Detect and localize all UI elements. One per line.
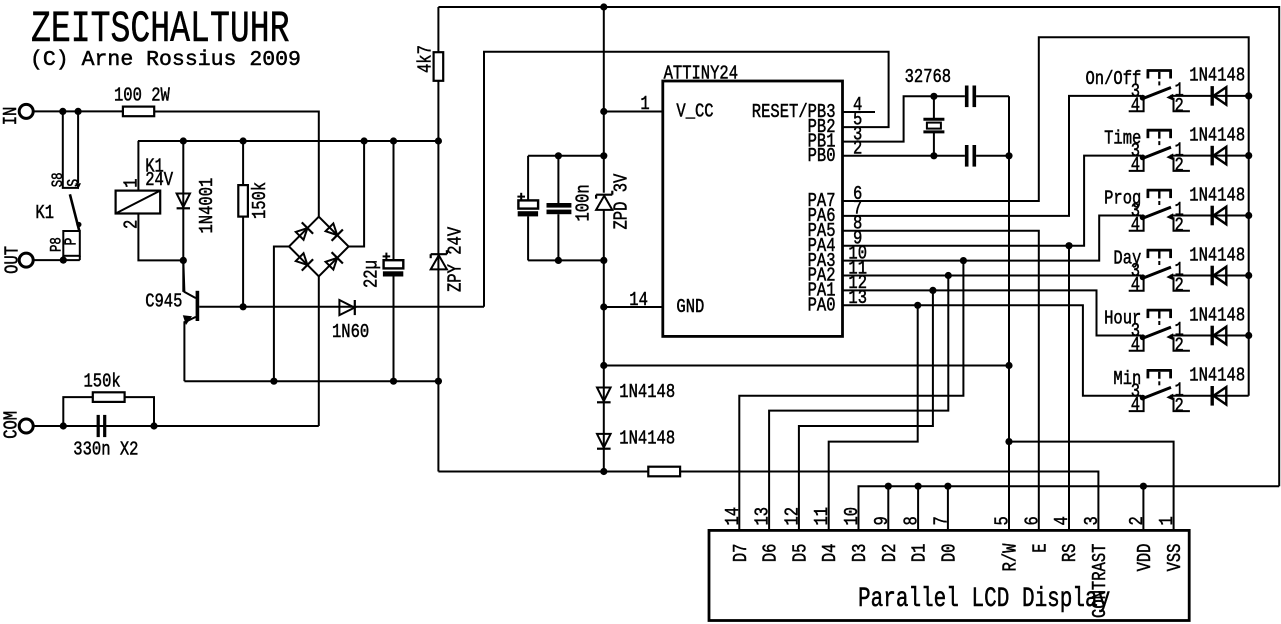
switch Min pin4 stub xyxy=(1129,398,1144,412)
terminal OUT xyxy=(19,253,33,267)
wire base xyxy=(199,306,484,308)
label button Time xyxy=(1104,128,1141,150)
label button Hour xyxy=(1104,308,1141,330)
svg-text:150k: 150k xyxy=(84,371,121,393)
svg-text:Time: Time xyxy=(1104,128,1141,150)
label LCD pin name D7 xyxy=(730,544,752,563)
zener ZPD 3V xyxy=(596,191,612,210)
label 100 2W xyxy=(114,85,170,107)
svg-text:13: 13 xyxy=(752,507,774,526)
cap 100n plate2 xyxy=(547,210,572,215)
wire 150k loop right xyxy=(125,397,154,426)
wire gnd diode line xyxy=(604,365,1009,367)
junction 100n bottom xyxy=(555,257,562,264)
svg-text:RS: RS xyxy=(1060,544,1082,563)
label Time pin1 xyxy=(1175,140,1184,162)
wire pin8 PA5 xyxy=(843,231,1039,531)
svg-text:D0: D0 xyxy=(939,544,961,563)
wire contrast rail right xyxy=(680,472,1098,531)
label pin 10 xyxy=(848,243,867,265)
svg-text:4: 4 xyxy=(1131,214,1140,236)
wire D1 stub xyxy=(917,486,919,530)
label Time pin2 xyxy=(1175,155,1184,177)
diode 1N4148 Hour xyxy=(1212,326,1226,346)
bridge diode top-left xyxy=(294,222,313,241)
bridge diode bottom-left xyxy=(294,252,313,271)
label 1N4148 b xyxy=(619,428,675,450)
svg-text:CONTRAST: CONTRAST xyxy=(1089,544,1111,618)
svg-text:4: 4 xyxy=(1131,155,1140,177)
wire pin9 PA4 xyxy=(843,156,1142,246)
wire Day pin1 to diode xyxy=(1170,275,1248,277)
label Hour pin2 xyxy=(1175,335,1184,357)
svg-text:10: 10 xyxy=(842,507,864,526)
svg-text:330n X2: 330n X2 xyxy=(73,439,138,461)
wire bridge right DC+ xyxy=(349,141,365,247)
svg-text:Parallel LCD Display: Parallel LCD Display xyxy=(858,585,1110,615)
svg-text:14: 14 xyxy=(629,289,648,311)
svg-text:14: 14 xyxy=(722,507,744,526)
switch Hour lever xyxy=(1143,327,1171,338)
label 4k7 xyxy=(415,45,437,73)
wire IN to resistor xyxy=(33,110,123,112)
label LCD pin name D3 xyxy=(850,544,872,563)
cap xtal top plate2 xyxy=(973,86,977,108)
switch On/Off pin4 stub xyxy=(1129,98,1144,112)
wire D5 link xyxy=(799,290,933,530)
terminal IN xyxy=(19,104,33,118)
label On/Off pin3 xyxy=(1131,81,1140,103)
label pin 5 xyxy=(853,109,862,131)
wire pin13 PA0 xyxy=(843,305,1142,396)
svg-text:2: 2 xyxy=(1175,335,1184,357)
svg-text:Hour: Hour xyxy=(1104,308,1141,330)
diode 1N4148 b xyxy=(597,434,611,449)
wire contrast rail left xyxy=(438,471,648,473)
junction contrast diode xyxy=(600,468,607,475)
wire vreg chain top xyxy=(603,7,605,193)
zener ZPY 24V xyxy=(431,250,447,269)
wire pin1 VCC stub xyxy=(604,111,663,113)
svg-text:2: 2 xyxy=(1175,95,1184,117)
svg-text:D7: D7 xyxy=(730,544,752,563)
svg-text:1N4148: 1N4148 xyxy=(1189,245,1245,267)
svg-text:OUT: OUT xyxy=(2,246,24,274)
wire RS vertical xyxy=(1068,246,1070,531)
switch Day contact arrow xyxy=(1166,273,1173,280)
svg-text:P: P xyxy=(63,238,81,246)
svg-text:K1: K1 xyxy=(35,203,54,225)
svg-text:32768: 32768 xyxy=(905,67,952,89)
label Min pin1 xyxy=(1175,380,1184,402)
label Hour pin3 xyxy=(1131,321,1140,343)
switch Prog pivot xyxy=(1140,214,1146,220)
cap 330n X2 plate2 xyxy=(103,415,106,437)
label Time pin4 xyxy=(1131,155,1140,177)
label LCD pin name E xyxy=(1030,544,1052,553)
wire On/Off pin1 to diode xyxy=(1170,95,1248,97)
label V_CC xyxy=(676,101,713,123)
wire crystal stub top xyxy=(933,96,935,119)
wire pin4 stub RESET/PB3 xyxy=(843,111,876,113)
label button Day xyxy=(1113,248,1141,270)
svg-text:2: 2 xyxy=(853,138,862,160)
svg-text:1N4148: 1N4148 xyxy=(619,428,675,450)
junction COM left xyxy=(60,422,67,429)
junction VDD xyxy=(1140,483,1147,490)
label LCD pin number 13 (D6) xyxy=(752,507,774,526)
junction OUT wire xyxy=(60,257,67,264)
label LCD pin name D4 xyxy=(820,544,842,563)
wire Hour pin1 to diode xyxy=(1170,335,1248,337)
svg-text:Min: Min xyxy=(1113,368,1141,390)
svg-text:D6: D6 xyxy=(760,544,782,563)
wire collector xyxy=(183,260,196,298)
junction pin10 D7 xyxy=(960,257,967,264)
label button Min xyxy=(1113,368,1141,390)
wire xtal cap bottom right xyxy=(976,155,1009,157)
label pin 8 xyxy=(853,213,862,235)
cap 10u bottom plate xyxy=(518,211,538,216)
wire 150k bottom xyxy=(242,217,244,307)
label Day pin1 xyxy=(1175,260,1184,282)
label LCD pin number 6 (E) xyxy=(1022,516,1044,525)
switch Hour actuator xyxy=(1147,310,1172,325)
switch Time actuator xyxy=(1147,130,1172,145)
diode 1N4148 Min xyxy=(1212,386,1226,406)
label On/Off pin2 xyxy=(1175,95,1184,117)
svg-text:1: 1 xyxy=(1157,516,1179,525)
label LCD pin number 11 (D4) xyxy=(812,507,834,526)
label 150k mid xyxy=(250,182,272,219)
cap xtal bot plate2 xyxy=(973,145,977,167)
label Hour pin4 xyxy=(1131,334,1140,356)
label Day pin3 xyxy=(1131,261,1140,283)
junction vreg caps top xyxy=(600,152,607,159)
junction RW vss line xyxy=(1005,438,1012,445)
wire 22u top xyxy=(393,141,395,260)
svg-text:4: 4 xyxy=(1131,274,1140,296)
S contact arrow xyxy=(75,183,81,189)
label LCD pin name VDD xyxy=(1134,544,1156,572)
switch Time pin2 stub xyxy=(1174,157,1190,171)
svg-text:1: 1 xyxy=(640,94,649,116)
label 22u xyxy=(361,260,383,288)
svg-text:D2: D2 xyxy=(879,544,901,563)
wire resistor to bridge corner xyxy=(154,112,319,217)
junction PB0 R/W node xyxy=(1005,152,1012,159)
switch Min actuator xyxy=(1147,370,1172,385)
label 32768 xyxy=(905,67,952,89)
label Min pin3 xyxy=(1131,381,1140,403)
label pin 14 GND xyxy=(629,289,648,311)
svg-text:(C) Arne Rossius 2009: (C) Arne Rossius 2009 xyxy=(30,48,301,72)
switch Day lever xyxy=(1143,267,1171,278)
junction rail 150k xyxy=(240,137,247,144)
resistor 150k loop xyxy=(93,392,125,402)
switch Hour pin2 stub xyxy=(1174,337,1190,351)
junction D0 xyxy=(944,483,951,490)
svg-text:1N4148: 1N4148 xyxy=(1189,125,1245,147)
label 1N4148 On/Off xyxy=(1189,65,1245,87)
svg-text:2: 2 xyxy=(1175,275,1184,297)
label PA4 xyxy=(808,235,836,257)
label button On/Off xyxy=(1086,68,1142,90)
switch Prog pin4 stub xyxy=(1129,217,1144,231)
label C945 xyxy=(145,291,182,313)
svg-text:ZPY 24V: ZPY 24V xyxy=(445,226,467,292)
label LCD pin number 2 (VDD) xyxy=(1126,516,1148,525)
svg-text:VSS: VSS xyxy=(1165,544,1187,572)
label 1N4148 Time xyxy=(1189,125,1245,147)
resistor 4k7 xyxy=(434,52,444,81)
wire Time pin1 to diode xyxy=(1170,155,1248,157)
svg-text:4: 4 xyxy=(1131,334,1140,356)
label Min pin4 xyxy=(1131,395,1140,417)
label PB0 xyxy=(808,146,836,168)
wire 10u bottom xyxy=(527,216,529,260)
svg-text:1N4148: 1N4148 xyxy=(1189,65,1245,87)
label Prog pin2 xyxy=(1175,215,1184,237)
emitter arrow xyxy=(183,315,192,325)
junction on IN wire A xyxy=(59,108,66,115)
svg-text:2: 2 xyxy=(1175,215,1184,237)
junction D1 xyxy=(915,483,922,490)
switch Day pin2 stub xyxy=(1174,277,1190,291)
wire 150k top xyxy=(242,141,244,185)
label K1 relay xyxy=(145,156,164,178)
label pin 7 xyxy=(853,198,862,220)
label 1N4148 Prog xyxy=(1189,185,1245,207)
svg-text:COM: COM xyxy=(1,411,23,439)
switch Time pin4 stub xyxy=(1129,157,1144,171)
svg-text:4: 4 xyxy=(1052,516,1074,525)
junction vreg GND xyxy=(600,303,607,310)
svg-text:4: 4 xyxy=(1131,395,1140,417)
switch Time lever xyxy=(1143,147,1171,158)
svg-text:4: 4 xyxy=(1131,95,1140,117)
wire VDD stub xyxy=(1142,486,1144,530)
junction pin12 D5 xyxy=(929,287,936,294)
label On/Off pin4 xyxy=(1131,95,1140,117)
label pin 6 xyxy=(853,183,862,205)
wire caps top line xyxy=(528,155,604,157)
wire COM xyxy=(33,425,319,427)
label LCD pin name VSS xyxy=(1165,544,1187,572)
wire OUT xyxy=(33,259,80,261)
svg-text:2: 2 xyxy=(1175,395,1184,417)
LCD box xyxy=(709,530,1189,620)
wire 150k loop xyxy=(63,397,93,426)
terminal COM xyxy=(19,419,33,433)
label PA3 xyxy=(808,250,836,272)
junction key common Hour xyxy=(1245,332,1252,339)
cap 330n X2 plate1 xyxy=(97,415,100,437)
switch Min pin2 stub xyxy=(1174,398,1190,412)
label PA0 xyxy=(808,295,836,317)
label PA2 xyxy=(808,265,836,287)
switch Prog contact arrow xyxy=(1166,213,1173,220)
label Min pin2 xyxy=(1175,395,1184,417)
switch Time pivot xyxy=(1140,155,1146,161)
svg-text:E: E xyxy=(1030,544,1052,553)
label PB2 xyxy=(808,116,836,138)
label relay pin 2 xyxy=(121,220,143,229)
wire pin11 PA2 xyxy=(843,275,1142,277)
label Day pin2 xyxy=(1175,275,1184,297)
label pin 3 xyxy=(853,124,862,146)
label LCD pin number 12 (D5) xyxy=(782,507,804,526)
label LCD pin name D0 xyxy=(939,544,961,563)
svg-text:IN: IN xyxy=(0,107,22,126)
diode 1N4001 xyxy=(177,194,190,209)
wire vreg chain mid xyxy=(603,210,605,472)
svg-text:150k: 150k xyxy=(250,182,272,219)
switch Min lever xyxy=(1143,387,1171,398)
svg-text:1N60: 1N60 xyxy=(332,322,369,344)
svg-text:D3: D3 xyxy=(850,544,872,563)
label LCD pin number 3 (CONTRAST) xyxy=(1081,516,1103,525)
label 1N4001 xyxy=(197,178,219,234)
label 100n xyxy=(573,184,595,221)
junction collector node xyxy=(180,257,187,264)
wire caps bottom line xyxy=(528,259,604,261)
label IN xyxy=(0,107,22,126)
label button Prog xyxy=(1104,188,1141,210)
svg-text:Day: Day xyxy=(1113,248,1141,270)
switch On/Off pin2 stub xyxy=(1174,98,1190,112)
switch On/Off lever xyxy=(1143,88,1171,99)
switch Prog lever xyxy=(1143,207,1171,218)
svg-text:5: 5 xyxy=(992,516,1014,525)
label 24V relay xyxy=(145,170,173,192)
label Hour pin1 xyxy=(1175,320,1184,342)
label PA6 xyxy=(808,206,836,228)
wire 1N60 corner up xyxy=(484,52,889,307)
junction RW gnd line xyxy=(1005,362,1012,369)
label LCD pin name RS xyxy=(1060,544,1082,563)
wire S contact right xyxy=(77,111,79,183)
label LCD pin number 10 (D3) xyxy=(842,507,864,526)
switch Min contact arrow xyxy=(1166,394,1173,401)
junction crystal top xyxy=(930,93,937,100)
label OUT xyxy=(2,246,24,274)
svg-text:C945: C945 xyxy=(145,291,182,313)
svg-text:PB0: PB0 xyxy=(808,146,836,168)
wire D4 link xyxy=(829,305,918,530)
label 1N4148 Min xyxy=(1189,365,1245,387)
junction rail 4k7-ZPY xyxy=(435,137,442,144)
switch Time contact arrow xyxy=(1166,153,1173,160)
svg-text:1: 1 xyxy=(121,178,143,187)
junction pin11 D6 xyxy=(945,272,952,279)
svg-text:R/W: R/W xyxy=(1000,543,1022,571)
label P pin xyxy=(63,238,81,246)
junction COM right xyxy=(150,422,157,429)
switch On/Off pivot xyxy=(1140,95,1146,101)
junction rail 22u-bottom xyxy=(390,378,397,385)
label LCD pin number 14 (D7) xyxy=(722,507,744,526)
wire 4k7 bottom xyxy=(437,81,439,141)
IC ATTINY24 box xyxy=(663,81,843,336)
svg-text:3: 3 xyxy=(1081,516,1103,525)
svg-text:ATTINY24: ATTINY24 xyxy=(664,63,738,85)
wire pin6 PA7 xyxy=(843,37,1249,396)
junction vreg diode line xyxy=(600,362,607,369)
wire +24 rail xyxy=(138,140,439,142)
title label ZEITSCHALTUHR xyxy=(31,4,289,55)
label PA7 xyxy=(808,191,836,213)
label pin 13 xyxy=(848,288,867,310)
wire S contact left xyxy=(63,111,79,187)
svg-text:D1: D1 xyxy=(909,544,931,563)
svg-text:9: 9 xyxy=(871,516,893,525)
wire 4k7 top xyxy=(437,7,439,52)
label pin 9 xyxy=(853,228,862,250)
junction key common Time xyxy=(1245,152,1252,159)
label 1N4148 Day xyxy=(1189,245,1245,267)
label S pin xyxy=(66,179,84,187)
label 1N4148 Hour xyxy=(1189,305,1245,327)
wire 22u bottom xyxy=(393,277,395,382)
label LCD pin name CONTRAST xyxy=(1089,544,1111,618)
label LCD pin name D1 xyxy=(909,544,931,563)
switch lever pivot dot xyxy=(76,222,81,227)
svg-text:100 2W: 100 2W xyxy=(114,85,170,107)
diode 1N4148 Day xyxy=(1212,266,1226,286)
svg-text:2: 2 xyxy=(1175,155,1184,177)
wire GND pin14 xyxy=(604,306,663,308)
svg-text:D4: D4 xyxy=(820,544,842,563)
svg-text:13: 13 xyxy=(848,288,867,310)
svg-text:8: 8 xyxy=(901,516,923,525)
svg-text:24V: 24V xyxy=(145,170,173,192)
diode 1N4148 Time xyxy=(1212,146,1226,166)
label LCD pin number 1 (VSS) xyxy=(1157,516,1179,525)
label Day pin4 xyxy=(1131,274,1140,296)
junction key common Prog xyxy=(1245,212,1252,219)
label PA1 xyxy=(808,280,836,302)
resistor 100 2W xyxy=(123,107,154,117)
bridge diode bottom-right xyxy=(324,252,343,271)
wire relay pin2 down xyxy=(138,214,183,261)
label COM xyxy=(1,411,23,439)
junction rail bridge xyxy=(361,137,368,144)
wire Min pin1 to diode xyxy=(1170,395,1248,397)
svg-text:On/Off: On/Off xyxy=(1086,68,1142,90)
wire pin3 PB1 xyxy=(843,96,925,141)
svg-text:2: 2 xyxy=(121,220,143,229)
cap 22u top plate xyxy=(384,260,404,268)
bridge diode top-right xyxy=(324,222,343,241)
svg-text:1N4148: 1N4148 xyxy=(619,382,675,404)
wire crystal stub bottom xyxy=(933,132,935,156)
svg-text:6: 6 xyxy=(1022,516,1044,525)
wire relay pin1 up xyxy=(137,141,139,191)
svg-text:S: S xyxy=(66,179,84,187)
wire bridge left DC- xyxy=(274,247,289,382)
label Time pin3 xyxy=(1131,141,1140,163)
wire Prog pin1 to diode xyxy=(1170,215,1248,217)
junction key common Day xyxy=(1245,272,1252,279)
label LCD pin number 7 (D0) xyxy=(931,516,953,525)
wire top rail xyxy=(438,7,1279,486)
diode 1N4148 Prog xyxy=(1212,206,1226,226)
svg-text:100n: 100n xyxy=(573,184,595,221)
label S8 pads xyxy=(50,172,68,187)
diode 1N4148 On/Off xyxy=(1212,86,1226,106)
wire pin7 PA6 xyxy=(843,96,1142,216)
